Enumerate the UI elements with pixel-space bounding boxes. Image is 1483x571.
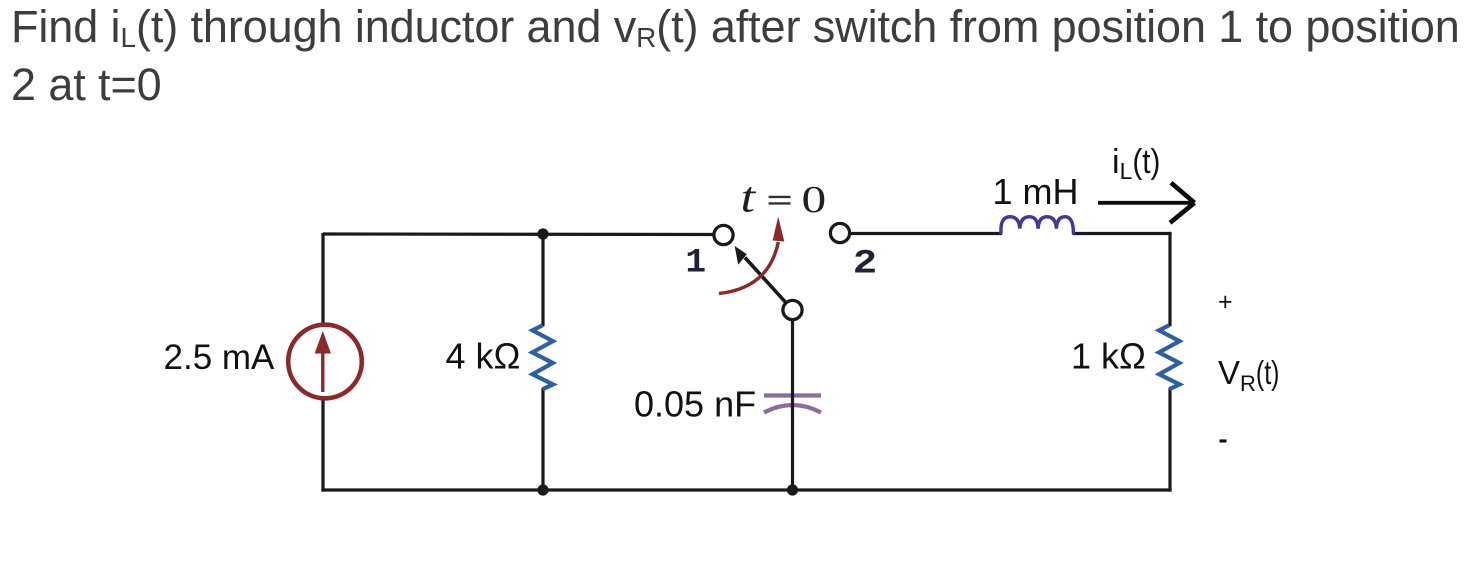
wire inductor to corner (1073, 232, 1172, 235)
resistor 1 kΩ (1159, 325, 1180, 389)
junction bottom of 4k branch (537, 484, 548, 495)
wire right vertical lower (1168, 388, 1171, 491)
junction top of 4k branch (537, 228, 548, 239)
svg-text:VR(t): VR(t) (1218, 354, 1279, 396)
switch SW1 arm (735, 246, 787, 303)
current arrow iL(t) (1098, 183, 1195, 223)
inductor 1 mH (1001, 217, 1074, 234)
wire 4k branch lower (541, 388, 544, 490)
svg-text:4 kΩ: 4 kΩ (446, 336, 521, 377)
label t = 0 (741, 174, 827, 222)
svg-text:1 mH: 1 mH (993, 171, 1079, 212)
title text (11, 1, 1460, 111)
svg-text:1 kΩ: 1 kΩ (1071, 336, 1146, 377)
junction bottom of capacitor branch (787, 484, 798, 495)
current source 2.5 mA (288, 325, 362, 399)
switch throw arc t=0 (719, 217, 784, 294)
svg-text:0.05 nF: 0.05 nF (634, 384, 756, 425)
wire capacitor branch (791, 317, 794, 490)
polarity minus (1220, 439, 1227, 442)
svg-text:1: 1 (685, 244, 706, 283)
wire 4k branch upper (541, 234, 544, 326)
node 1 terminal circle (714, 225, 733, 244)
wire top-left rail (323, 232, 715, 236)
resistor 4 kΩ (532, 325, 553, 389)
svg-text:t: t (741, 174, 757, 222)
svg-text:2.5 mA: 2.5 mA (164, 338, 276, 377)
svg-text:2: 2 (853, 245, 877, 283)
node 2 terminal circle (830, 223, 849, 242)
svg-text:iL(t): iL(t) (1112, 143, 1160, 184)
wire left vertical lower (321, 398, 324, 492)
capacitor 0.05 nF (764, 396, 821, 413)
wire left vertical upper (321, 233, 324, 325)
wire bottom rail (321, 488, 1171, 491)
switch pivot terminal circle (783, 300, 802, 319)
svg-text:+: + (1218, 288, 1233, 316)
svg-text:0: 0 (802, 178, 827, 220)
wire right vertical upper (1168, 232, 1171, 326)
wire node2 to inductor (849, 232, 1003, 235)
